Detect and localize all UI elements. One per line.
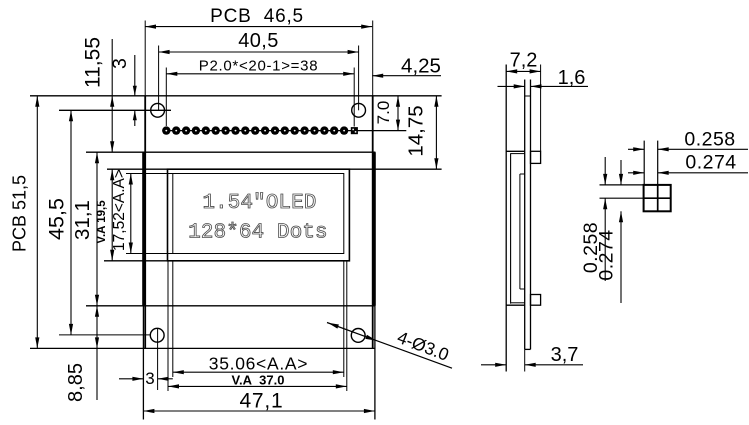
svg-text:45,5: 45,5 <box>45 198 69 240</box>
svg-text:PCB 51,5: PCB 51,5 <box>10 175 30 252</box>
svg-text:7,2: 7,2 <box>510 50 538 72</box>
svg-text:V.A 19,5: V.A 19,5 <box>96 200 108 244</box>
svg-text:4,25: 4,25 <box>401 55 441 78</box>
svg-text:0.274: 0.274 <box>596 229 618 280</box>
svg-text:0.274: 0.274 <box>685 152 736 174</box>
svg-text:3: 3 <box>109 58 131 69</box>
svg-text:7.0: 7.0 <box>374 101 393 125</box>
svg-text:31,1: 31,1 <box>71 200 94 240</box>
svg-text:17,52<A.A>: 17,52<A.A> <box>111 169 128 251</box>
svg-text:11,55: 11,55 <box>82 37 105 88</box>
svg-text:PCB 46,5: PCB 46,5 <box>210 6 304 27</box>
svg-text:1,6: 1,6 <box>558 67 586 89</box>
svg-text:3,7: 3,7 <box>551 344 579 366</box>
svg-text:P2.0*<20-1>=38: P2.0*<20-1>=38 <box>199 58 318 75</box>
svg-text:14,75: 14,75 <box>405 105 428 156</box>
svg-text:3: 3 <box>145 369 154 388</box>
svg-text:8,85: 8,85 <box>65 363 87 402</box>
svg-text:0.258: 0.258 <box>684 129 735 151</box>
svg-text:47,1: 47,1 <box>239 390 283 413</box>
svg-text:128*64 Dots: 128*64 Dots <box>188 222 327 245</box>
svg-text:1.54″OLED: 1.54″OLED <box>202 192 316 215</box>
svg-text:40,5: 40,5 <box>238 30 279 52</box>
svg-text:35.06<A.A>: 35.06<A.A> <box>209 354 308 374</box>
svg-text:V.A 37.0: V.A 37.0 <box>231 373 284 388</box>
